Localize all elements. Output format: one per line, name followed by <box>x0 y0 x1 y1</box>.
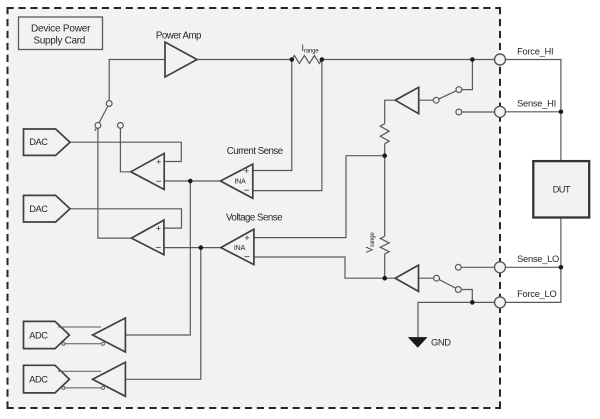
wire: Sense_HI <box>459 111 495 113</box>
resistor (divider upper) <box>380 124 389 144</box>
wire: divider bottom <box>384 254 386 278</box>
DUT <box>533 161 589 217</box>
junction: shunt left <box>290 57 295 62</box>
junction: current sense node <box>188 179 193 184</box>
svg-text:DAC: DAC <box>29 137 48 147</box>
wire: buffer A1 tip to divider <box>385 100 396 124</box>
wire: Sense_LO to DUT <box>506 266 561 268</box>
DAC D2 <box>24 195 71 222</box>
INA U4 (current sense) <box>220 146 282 198</box>
wire: current sense node to op-amp U1 - input <box>164 180 220 182</box>
svg-text:GND: GND <box>431 338 451 348</box>
svg-text:−: − <box>155 243 161 254</box>
ground <box>409 338 451 348</box>
svg-text:DAC: DAC <box>29 204 48 214</box>
switch contact circles (LO side) <box>434 275 440 281</box>
wire: Force_HI to DUT <box>506 60 561 162</box>
ADC A3 buffer <box>93 318 126 352</box>
wire: Force_LO to GND <box>418 302 495 337</box>
wire: INA1 + input to shunt left <box>253 60 292 171</box>
junction: divider bottom node <box>382 276 387 281</box>
wire: Sense_LO <box>458 266 494 268</box>
buffer A1 (HI) <box>395 87 419 113</box>
switch arm (input select) <box>95 104 109 131</box>
svg-text:INA: INA <box>234 179 246 186</box>
svg-text:Sense_HI: Sense_HI <box>517 99 556 109</box>
ADC A4 buffer <box>93 362 126 396</box>
ADC A4 differential pair wires <box>58 371 105 389</box>
svg-text:Supply Card: Supply Card <box>33 36 85 47</box>
svg-text:+: + <box>156 224 161 234</box>
svg-text:Voltage Sense: Voltage Sense <box>226 213 282 224</box>
svg-text:Force_LO: Force_LO <box>517 289 556 299</box>
resistor V_range <box>380 236 389 253</box>
junction: DUT bottom node <box>559 265 564 270</box>
svg-text:Current Sense: Current Sense <box>227 146 283 157</box>
wire: power amp output to Force_HI <box>197 59 495 61</box>
svg-text:Power Amp: Power Amp <box>156 30 201 41</box>
wire: DAC2 to op-amp U2 + input <box>70 209 182 228</box>
DAC D1 <box>24 129 71 155</box>
switch contact circles (HI side) <box>433 97 439 103</box>
svg-text:−: − <box>244 252 250 263</box>
junction: shunt right <box>320 57 325 62</box>
op-amp U2 <box>131 220 164 255</box>
port Sense_HI <box>495 99 556 118</box>
svg-text:−: − <box>244 186 250 197</box>
svg-text:Force_HI: Force_HI <box>517 47 553 57</box>
junction: Force_HI node <box>470 57 475 62</box>
port Force_LO <box>495 289 557 308</box>
resistor I_range <box>292 56 322 64</box>
wire: buffer A1 input <box>419 99 437 101</box>
switch contact circles (input select) <box>106 101 112 107</box>
svg-text:+: + <box>244 166 249 176</box>
wire: current sense node to ADC1 buffer <box>125 181 190 335</box>
op-amp U1 <box>131 153 164 189</box>
svg-text:+: + <box>156 157 161 167</box>
wire: INA2 - input to divider bottom node <box>254 257 395 278</box>
switch arm (Force_HI) <box>436 90 459 101</box>
INA U5 (voltage sense) <box>221 213 282 265</box>
wire: DUT to Force_LO <box>506 218 561 303</box>
svg-text:ADC: ADC <box>29 375 48 385</box>
wire: Sense_HI to DUT <box>506 111 561 113</box>
junction: DUT top node <box>559 110 564 115</box>
title box <box>19 17 103 50</box>
buffer A2 (LO) <box>395 265 418 291</box>
svg-text:DUT: DUT <box>553 185 571 195</box>
wire: op-amp U1 output to switch <box>120 125 130 171</box>
wire: voltage sense node to op-amp U2 - input <box>164 247 221 249</box>
wire: divider mid <box>384 144 386 237</box>
wire: switch to Force_LO <box>458 290 472 303</box>
ADC A3 <box>24 321 70 348</box>
svg-text:ADC: ADC <box>29 330 48 340</box>
port Force_HI <box>495 47 554 66</box>
wire: Force_HI down to switch <box>459 60 473 90</box>
wire: power amp input <box>109 60 165 104</box>
ADC A4 <box>24 365 70 393</box>
wire: voltage sense node to ADC2 buffer <box>125 248 200 380</box>
junction: Force_LO node <box>470 300 475 305</box>
wire: op-amp U2 output to switch <box>98 125 131 238</box>
wire: buffer A2 input <box>419 277 437 279</box>
port Sense_LO <box>495 254 560 273</box>
power amp U3 <box>156 30 201 77</box>
wire: DAC1 to op-amp U1 + input <box>70 142 181 161</box>
switch arm (Force_LO) <box>437 278 459 289</box>
svg-text:+: + <box>244 233 249 243</box>
card outline (dashed) <box>7 7 502 409</box>
junction: divider top node <box>382 153 387 158</box>
wire: INA1 - input to shunt right <box>253 60 322 191</box>
wire: INA2 + input to divider top node <box>254 156 385 238</box>
ADC A3 differential pair wires <box>58 327 105 345</box>
svg-text:Sense_LO: Sense_LO <box>517 254 559 264</box>
svg-text:Device Power: Device Power <box>31 23 91 34</box>
svg-text:−: − <box>156 176 162 187</box>
junction: voltage sense node <box>199 245 204 250</box>
